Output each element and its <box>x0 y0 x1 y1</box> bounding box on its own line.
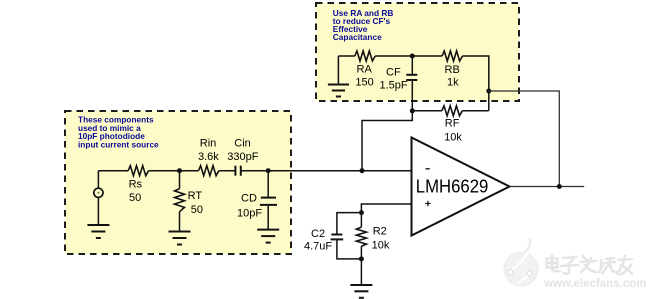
ground (RT) <box>169 232 191 245</box>
wire RA to node <box>375 55 412 57</box>
svg-text:10k: 10k <box>372 240 390 252</box>
annotation box top (Use RA and RB) <box>316 3 519 101</box>
annotation box left (photodiode mimic) <box>65 111 291 254</box>
wire non-inverting input <box>361 204 411 213</box>
svg-text:RF: RF <box>445 117 460 129</box>
svg-text:C2: C2 <box>311 228 325 240</box>
wire RF right <box>462 110 489 112</box>
ground (CD) <box>257 230 279 243</box>
capacitor C2 <box>337 213 362 235</box>
svg-text:R2: R2 <box>373 226 387 238</box>
svg-text:1.5pF: 1.5pF <box>380 80 408 92</box>
node CF/RF <box>410 108 415 113</box>
wire source top to main line <box>97 171 99 189</box>
resistor Rs <box>128 166 148 176</box>
capacitor CF <box>406 75 417 80</box>
op-amp U1 LMH6629 <box>412 138 510 236</box>
ground (current source) <box>87 225 109 238</box>
wire Cin to node <box>241 170 268 172</box>
node feedback tap on main line <box>360 168 365 173</box>
wire CD to ground <box>267 205 269 230</box>
wire node to Rin <box>180 170 199 172</box>
resistor RA <box>355 51 375 61</box>
svg-text:LMH6629: LMH6629 <box>416 176 489 196</box>
svg-text:Capacitance: Capacitance <box>333 32 382 42</box>
node Cin/CD <box>266 168 271 173</box>
wire CF bottom to RF node <box>411 80 413 111</box>
svg-text:50: 50 <box>129 192 141 204</box>
wire RA ground stub to RA <box>337 56 339 84</box>
pin label minus <box>426 168 430 170</box>
watermark chinese characters <box>547 255 633 275</box>
svg-text:CD: CD <box>241 193 257 205</box>
node output <box>557 184 562 189</box>
wire node down to CD <box>267 171 269 198</box>
svg-text:RT: RT <box>188 190 203 202</box>
node Rs/RT/Rin <box>177 168 182 173</box>
wire feedback jog to main line <box>362 111 412 171</box>
svg-text:1k: 1k <box>447 77 459 89</box>
capacitor Cin <box>235 166 240 176</box>
ground (top box, left of RA) <box>328 85 349 97</box>
wire RF left to node <box>412 110 442 112</box>
svg-text:RA: RA <box>357 63 373 75</box>
node R2/C2 bottom <box>359 256 364 261</box>
wire RT to ground <box>179 212 181 232</box>
wire R2 bottom <box>360 246 362 259</box>
wire Rin to Cin <box>219 170 236 172</box>
svg-text:Rs: Rs <box>129 178 143 190</box>
svg-text:input current source: input current source <box>78 140 159 150</box>
resistor RT <box>179 171 181 189</box>
wire source bottom to ground <box>97 197 99 225</box>
wire node to RB <box>412 55 442 57</box>
svg-text:330pF: 330pF <box>227 151 258 163</box>
wire C2 bottom to node <box>337 239 362 259</box>
wire main line source to Rs <box>98 170 128 172</box>
svg-text:www.elecfans.com: www.elecfans.com <box>543 278 646 290</box>
svg-text:3.6k: 3.6k <box>198 151 219 163</box>
ground (R2/C2) <box>350 285 372 298</box>
resistor R2 <box>360 213 362 228</box>
resistor RF <box>442 106 462 116</box>
svg-text:Cin: Cin <box>234 138 251 150</box>
resistor RB <box>442 51 462 61</box>
svg-text:RB: RB <box>445 64 460 76</box>
svg-text:4.7uF: 4.7uF <box>304 241 332 253</box>
resistor Rin <box>199 166 219 176</box>
watermark logo disc <box>504 238 539 287</box>
wire main line to op-amp inverting input <box>268 170 411 172</box>
current source circle <box>94 188 103 197</box>
svg-text:CF: CF <box>386 67 401 79</box>
pin label plus <box>425 201 430 206</box>
wire Rs to node <box>149 170 180 172</box>
svg-text:10pF: 10pF <box>237 208 262 220</box>
capacitor CD <box>260 198 277 205</box>
node RB/feedback out <box>486 89 491 94</box>
wire output <box>510 186 585 188</box>
node RA/CF/RB <box>410 54 415 59</box>
wire ground to RA left <box>338 55 354 57</box>
wire node down to CF <box>411 56 413 75</box>
wire feedback out to right rail <box>489 91 560 187</box>
svg-text:Rin: Rin <box>200 138 217 150</box>
wire RB right, down to RF <box>463 56 489 111</box>
svg-text:150: 150 <box>355 76 373 88</box>
svg-text:50: 50 <box>191 204 203 216</box>
svg-text:10k: 10k <box>444 131 462 143</box>
wire R2 bottom to ground <box>360 259 362 285</box>
node +in/R2/C2 <box>359 210 364 215</box>
